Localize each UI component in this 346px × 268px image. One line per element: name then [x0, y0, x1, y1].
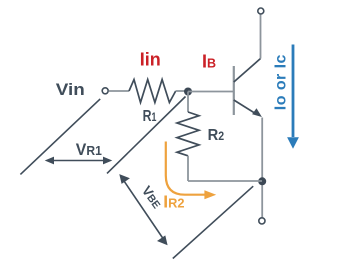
- wire R1 to node: [176, 90, 188, 92]
- wire R2 bottom to emitter node: [188, 180, 262, 182]
- VR1 right tick line: [107, 97, 186, 174]
- svg-text:R1: R1: [143, 108, 157, 125]
- VR1 double arrow: [48, 160, 109, 162]
- svg-text:Io or Ic: Io or Ic: [272, 54, 289, 110]
- wire collector to top terminal: [260, 15, 262, 59]
- input terminal circle: [102, 88, 108, 94]
- resistor R2 bottom lead: [187, 156, 189, 181]
- orange current arrow IR2: [166, 142, 205, 195]
- VBE bottom tick line: [173, 186, 253, 258]
- svg-text:R2: R2: [208, 127, 225, 144]
- VBE double arrow: [122, 177, 166, 242]
- wire emitter down: [261, 118, 263, 218]
- bottom terminal circle: [259, 218, 265, 224]
- transistor Q1 collector line: [234, 59, 261, 83]
- resistor R2: [177, 112, 199, 156]
- VR1 left tick line: [20, 99, 100, 174]
- node A junction dot: [184, 88, 192, 96]
- resistor R2 top lead: [187, 92, 189, 113]
- svg-text:VBE: VBE: [139, 183, 165, 211]
- top terminal circle: [258, 8, 264, 14]
- svg-text:Iin: Iin: [140, 49, 161, 69]
- wire node to base: [188, 91, 234, 93]
- wire input to R1: [109, 90, 129, 92]
- svg-text:Vin: Vin: [56, 80, 85, 99]
- svg-text:IB: IB: [202, 52, 216, 72]
- blue output current arrow Io: [292, 45, 295, 138]
- transistor Q1 base bar: [233, 66, 235, 115]
- svg-text:VR1: VR1: [76, 140, 102, 159]
- resistor R1: [129, 80, 176, 103]
- transistor Q1 emitter line with arrow: [234, 100, 257, 114]
- node B emitter junction dot: [258, 177, 266, 185]
